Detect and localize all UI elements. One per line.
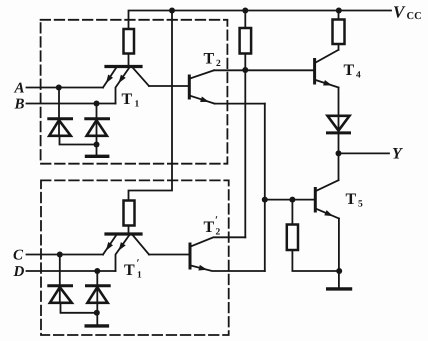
svg-text:T: T — [204, 51, 215, 68]
transistor T4 emitter — [316, 80, 339, 88]
node rail-R2 — [242, 8, 248, 14]
resistor R2 — [240, 28, 252, 54]
label Y — [392, 146, 403, 163]
svg-text:5: 5 — [358, 200, 363, 210]
resistor R4 — [333, 20, 345, 45]
node diode junction upper — [94, 142, 100, 148]
svg-text:V: V — [393, 3, 406, 22]
transistor T1 emitter 1 arrow — [106, 75, 113, 84]
wire T5 base row — [265, 199, 314, 201]
wire input A — [27, 87, 104, 89]
transistor T2' emitter — [191, 266, 265, 272]
svg-text:1: 1 — [137, 271, 142, 281]
transistor T1 emitter 2 — [116, 68, 130, 104]
transistor T1' emitter 2 — [116, 236, 130, 272]
transistor T4 emitter arrow — [323, 80, 332, 86]
wire R4 bottom to T4 collector — [338, 44, 340, 50]
transistor T1' emitter 1 — [103, 236, 116, 255]
transistor T4 base bar — [313, 60, 316, 84]
input B label — [14, 97, 25, 113]
transistor T2' emitter arrow — [198, 265, 207, 271]
input C label — [13, 248, 24, 264]
wire output Y — [339, 152, 390, 154]
node emitter bus - base row — [262, 197, 268, 203]
node base row - R3 — [289, 197, 295, 203]
input A label — [14, 81, 25, 97]
wire T4 emitter to diode — [338, 88, 340, 133]
diode D1 (input A clamp) — [49, 88, 97, 145]
node diode junction lower — [94, 310, 100, 316]
wire input C — [27, 254, 104, 256]
label T2 — [204, 51, 222, 70]
wire R2 top — [244, 11, 246, 29]
wire R3 bottom — [292, 250, 339, 271]
node rail-R4 — [336, 8, 342, 14]
wire Y to T5 collector — [338, 153, 340, 180]
transistor T1' emitter 2 arrow — [119, 242, 126, 251]
diode D2' (input D clamp) — [87, 271, 110, 324]
transistor T2 base bar — [188, 76, 191, 98]
transistor T2' base bar — [189, 244, 192, 268]
svg-text:CC: CC — [407, 11, 422, 22]
node collector row — [242, 67, 248, 73]
svg-text:′: ′ — [137, 258, 140, 270]
svg-text:C: C — [13, 248, 24, 264]
label T1' — [124, 258, 142, 281]
transistor T4 collector — [316, 50, 339, 63]
svg-text:′: ′ — [215, 215, 218, 227]
wire R3 top — [291, 200, 293, 225]
svg-text:T: T — [344, 62, 355, 79]
resistor R1' — [124, 201, 135, 226]
ground (lower diodes) — [86, 324, 107, 327]
node D-diode — [94, 268, 100, 274]
diode D3 (level shift) — [328, 116, 350, 154]
resistor R3 — [287, 225, 298, 251]
wire rail to R1' — [129, 11, 173, 201]
ground (upper diodes) — [87, 155, 108, 158]
wire R1 to T1 base — [128, 54, 130, 66]
node Y — [336, 150, 342, 156]
wire collector row T2 to T4 base — [214, 69, 313, 71]
transistor T1' base bar — [106, 232, 141, 235]
transistor T5 emitter — [316, 209, 339, 219]
wire R4 top — [338, 11, 340, 20]
svg-text:T: T — [122, 91, 133, 108]
node A-diode — [56, 85, 62, 91]
label T5 — [346, 191, 364, 210]
svg-text:2: 2 — [216, 59, 221, 69]
Vcc label — [393, 3, 422, 23]
svg-text:A: A — [14, 81, 25, 97]
svg-text:T: T — [204, 219, 215, 236]
transistor T1 (multi-emitter) base bar — [106, 65, 141, 68]
dashed box lower gate — [41, 180, 229, 335]
transistor T5 collector — [316, 180, 338, 191]
wire T2 emitter row — [215, 103, 265, 105]
transistor T2 emitter arrow — [200, 97, 209, 103]
input D label — [13, 264, 25, 280]
diode D1' (input C clamp) — [49, 255, 97, 313]
transistor T5 emitter arrow — [324, 210, 333, 216]
wire vertical emitter bus — [264, 104, 266, 271]
wire vertical collector bus — [244, 70, 246, 237]
transistor T1' emitter 1 arrow — [106, 242, 113, 251]
svg-text:2: 2 — [216, 228, 221, 238]
diode D2 (input B clamp) — [86, 104, 109, 155]
wire R2 bottom — [244, 54, 246, 70]
transistor T1 emitter 2 arrow — [119, 75, 126, 84]
node ground — [336, 268, 342, 274]
transistor T2 collector — [190, 70, 214, 78]
transistor T1 emitter 1 — [103, 68, 116, 88]
svg-text:T: T — [124, 262, 135, 279]
svg-text:Y: Y — [392, 146, 403, 163]
transistor T2' collector — [191, 237, 246, 246]
wire T1' collector to T2' base — [149, 254, 189, 256]
dashed box upper gate — [41, 20, 228, 164]
wire input B — [27, 103, 116, 105]
wire T5 emitter down — [338, 219, 340, 288]
label T4 — [344, 62, 362, 81]
label T1 — [122, 91, 140, 110]
svg-text:D: D — [13, 264, 25, 280]
ground (T5 emitter) — [328, 287, 351, 290]
transistor T1' collector — [133, 236, 149, 255]
label T2' — [204, 215, 221, 238]
Vcc rail wire — [129, 11, 392, 30]
svg-text:4: 4 — [356, 71, 361, 81]
svg-text:T: T — [346, 191, 357, 208]
node B-diode — [94, 101, 100, 107]
resistor R1 — [124, 29, 135, 54]
wire input D — [27, 270, 116, 272]
wire T1 collector to T2 base — [149, 85, 188, 87]
wire R1' to T1' base — [128, 226, 130, 233]
node: rail to lower-gate dot — [169, 8, 175, 14]
svg-text:1: 1 — [135, 100, 140, 110]
node C-diode — [57, 252, 63, 258]
transistor T1 collector — [133, 68, 149, 86]
svg-text:B: B — [14, 97, 25, 113]
transistor T5 base bar — [314, 189, 317, 212]
transistor T2 emitter — [190, 96, 215, 104]
